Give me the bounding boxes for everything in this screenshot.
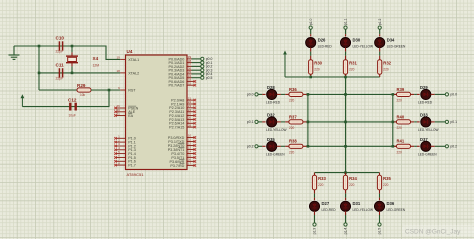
resistor R33 — [312, 175, 316, 190]
junction — [392, 121, 395, 124]
terminal p0.2 left — [255, 145, 258, 148]
pin R41 right — [410, 145, 414, 147]
wire XTAL1 net — [14, 46, 120, 59]
junction — [344, 121, 347, 124]
pin P3.1/TXD (pin 11) — [187, 141, 195, 143]
junction — [392, 145, 395, 148]
pin P1.2 (pin 3) — [116, 145, 126, 147]
pin P2.1/A9 (pin 22) — [187, 103, 195, 105]
junction rail R31 — [344, 76, 347, 79]
wire vertical A — [307, 94, 309, 146]
terminal p0.2 right — [445, 145, 448, 148]
pin P3.2/INT0 (pin 12) — [187, 145, 195, 147]
svg-text:R35: R35 — [383, 176, 391, 181]
ground — [9, 46, 20, 59]
pin R31 top — [345, 56, 347, 60]
svg-text:p0.2: p0.2 — [450, 145, 457, 149]
pin P3.4/T0 (pin 14) — [187, 153, 195, 155]
pin D32 cathode — [277, 121, 281, 123]
pin PSEN (pin 29) — [116, 107, 126, 109]
svg-text:LED-YELLOW: LED-YELLOW — [266, 128, 287, 132]
svg-text:R34: R34 — [349, 176, 357, 181]
power terminal VCC left — [21, 94, 25, 106]
svg-text:D37: D37 — [420, 137, 428, 142]
svg-text:p0.2: p0.2 — [247, 145, 254, 149]
svg-text:220: 220 — [349, 68, 355, 72]
svg-text:22pF: 22pF — [56, 50, 64, 54]
svg-text:LED-GREEN: LED-GREEN — [387, 208, 406, 212]
svg-text:D36: D36 — [387, 201, 395, 206]
wire XTAL2 net — [39, 72, 120, 74]
LED D35 — [266, 140, 278, 152]
pin X4 bottom — [71, 63, 73, 67]
wire P0.4 to terminal — [192, 73, 201, 75]
svg-text:D30: D30 — [353, 38, 361, 43]
pin P0.3/AD3 (pin 36) — [187, 69, 192, 71]
pin EA (pin 31) — [116, 115, 126, 117]
resistor R34 — [343, 175, 347, 190]
LED D33 — [420, 116, 432, 128]
svg-text:31: 31 — [116, 112, 120, 116]
pin D31 anode — [345, 198, 347, 202]
wire D31 to terminal — [345, 215, 347, 223]
svg-text:D28: D28 — [267, 85, 275, 90]
svg-text:R33: R33 — [318, 176, 326, 181]
pin XTAL1 (pin 19) — [120, 58, 125, 60]
MCU U4 AT89C51 body — [126, 55, 188, 170]
svg-text:D34: D34 — [387, 38, 395, 43]
junction RST node — [108, 89, 111, 92]
pin D26 cathode — [310, 47, 312, 51]
svg-text:p1.5: p1.5 — [378, 228, 382, 235]
junction — [392, 93, 395, 96]
terminal p0.0 — [201, 57, 204, 60]
wire row p0.1 — [307, 121, 397, 123]
svg-text:D32: D32 — [267, 112, 275, 117]
resistor R38 — [289, 144, 303, 148]
pin R39 left — [393, 93, 397, 95]
pin P1.4 (pin 5) — [116, 153, 126, 155]
junction — [344, 93, 347, 96]
svg-text:D26: D26 — [318, 38, 326, 43]
wire D32 to R37 — [281, 121, 285, 123]
terminal p0.0 right — [445, 93, 448, 96]
wire R41 to D37 — [414, 145, 417, 147]
pin D27 anode — [314, 198, 316, 202]
capacitor C11 — [59, 68, 62, 77]
wire terminal to D35 — [258, 145, 262, 147]
svg-text:19: 19 — [116, 56, 120, 60]
pin R35 top — [379, 173, 381, 176]
wire vertical gnd branch — [38, 46, 40, 90]
terminal p0.1 right — [445, 120, 448, 123]
resistor R37 — [289, 120, 303, 124]
wire C12 net — [22, 90, 109, 107]
wire R35 to D36 — [379, 194, 381, 198]
pin R34 top — [345, 173, 347, 176]
svg-text:EA: EA — [128, 114, 133, 118]
junction — [71, 72, 74, 75]
pin P1.7 (pin 8) — [116, 164, 126, 166]
svg-text:R37: R37 — [289, 114, 297, 119]
svg-text:p1.4: p1.4 — [344, 228, 348, 235]
pin D28 anode — [262, 93, 267, 95]
pin D26 anode — [310, 34, 312, 38]
pin R30 bottom — [310, 74, 312, 77]
power terminal VCC top — [283, 51, 287, 78]
wire D36 to terminal — [379, 215, 381, 223]
svg-text:R39: R39 — [397, 87, 405, 92]
wire D33 to terminal — [435, 121, 446, 123]
pin R31 bottom — [345, 74, 347, 77]
svg-text:220: 220 — [289, 151, 295, 155]
pin ALE (pin 30) — [116, 111, 126, 113]
terminal p0.1 — [201, 61, 204, 64]
wire D29 to terminal — [435, 93, 446, 95]
wire D35 to R38 — [281, 145, 285, 147]
resistor R35 — [377, 175, 381, 190]
pin R33 bottom — [314, 190, 316, 194]
pin P0.5/AD5 (pin 34) — [187, 77, 192, 79]
wire crystal branch bottom — [71, 66, 73, 73]
junction — [38, 45, 41, 48]
junction — [71, 45, 74, 48]
svg-text:P3.7/RD: P3.7/RD — [170, 164, 184, 168]
terminal p1.2 top — [378, 26, 381, 29]
wire P0.2 to terminal — [192, 65, 201, 67]
crystal X4 — [66, 56, 78, 63]
pin R34 bottom — [345, 190, 347, 194]
svg-text:220: 220 — [289, 99, 295, 103]
svg-text:R38: R38 — [289, 139, 297, 144]
resistor R29 — [77, 88, 91, 92]
svg-text:220: 220 — [397, 126, 403, 130]
pin P2.0/A8 (pin 21) — [187, 99, 195, 101]
svg-text:LED-YELLOW: LED-YELLOW — [353, 45, 374, 49]
pin R40 right — [410, 121, 414, 123]
wire R33 to D27 — [314, 194, 316, 198]
svg-text:LED-RED: LED-RED — [418, 100, 433, 104]
pin D27 cathode — [314, 211, 316, 215]
pin R37 right — [303, 121, 307, 123]
pin D34 anode — [379, 34, 381, 38]
svg-text:LED-RED: LED-RED — [266, 100, 281, 104]
junction — [344, 145, 347, 148]
pin P3.0/RXD (pin 10) — [187, 137, 195, 139]
wire RST left — [39, 89, 78, 91]
LED D36 — [373, 200, 385, 212]
svg-text:220: 220 — [289, 126, 295, 130]
capacitor C12 — [70, 103, 75, 111]
svg-text:32: 32 — [188, 81, 192, 85]
wire RST right — [91, 89, 120, 91]
junction — [307, 121, 310, 124]
pin P0.4/AD4 (pin 35) — [187, 73, 192, 75]
svg-text:LED-GREEN: LED-GREEN — [418, 152, 437, 156]
svg-text:p0.1: p0.1 — [247, 120, 254, 124]
pin R40 left — [393, 121, 397, 123]
pin P2.2/A10 (pin 23) — [187, 107, 195, 109]
pin P2.6/A14 (pin 27) — [187, 122, 195, 124]
wire terminal to D34 — [379, 29, 381, 34]
resistor R36 — [289, 92, 303, 96]
pin P1.0 (pin 1) — [116, 137, 126, 139]
LED D29 — [420, 88, 432, 100]
resistor R39 — [397, 92, 411, 96]
pin R36 left — [285, 93, 289, 95]
svg-text:R32: R32 — [383, 61, 391, 66]
resistor R31 — [343, 60, 347, 75]
pin P3.7/RD (pin 17) — [187, 164, 195, 166]
pin D37 cathode — [431, 145, 435, 147]
svg-text:220: 220 — [314, 68, 320, 72]
svg-text:U4: U4 — [127, 49, 133, 54]
svg-text:LED-YELLOW: LED-YELLOW — [353, 208, 374, 212]
junction — [307, 93, 310, 96]
terminal p0.1 left — [255, 120, 258, 123]
pin P1.6 (pin 7) — [116, 160, 126, 162]
pin P1.5 (pin 6) — [116, 157, 126, 159]
svg-text:p1.0: p1.0 — [309, 18, 313, 25]
svg-text:p1.2: p1.2 — [378, 18, 382, 25]
wire terminal to D30 — [345, 29, 347, 34]
wire D30 to R31 — [345, 52, 347, 56]
pin R32 bottom — [379, 74, 381, 77]
wire R39 to D29 — [414, 93, 417, 95]
svg-text:220: 220 — [383, 183, 389, 187]
svg-text:C11: C11 — [56, 63, 65, 68]
LED D32 — [266, 116, 278, 128]
LED D30 — [339, 37, 351, 49]
capacitor C10 — [59, 41, 62, 50]
svg-text:XTAL2: XTAL2 — [128, 71, 139, 75]
svg-text:10k: 10k — [80, 93, 86, 97]
pin R30 top — [310, 56, 312, 60]
pin P0.6/AD6 (pin 33) — [187, 80, 195, 82]
svg-text:10uF: 10uF — [69, 114, 76, 118]
svg-text:p0.0: p0.0 — [247, 93, 254, 97]
terminal p1.1 top — [344, 26, 347, 29]
pin P2.5/A13 (pin 26) — [187, 118, 195, 120]
terminal p1.0 top — [309, 26, 312, 29]
svg-text:22pF: 22pF — [56, 77, 64, 81]
terminal p1.3 bottom — [313, 223, 316, 226]
junction — [38, 72, 41, 75]
junction — [307, 145, 310, 148]
junction — [344, 171, 347, 174]
svg-text:RST: RST — [128, 88, 136, 92]
LED D31 — [339, 200, 351, 212]
wire D26 to R30 — [310, 52, 312, 56]
LED D28 — [266, 88, 278, 100]
terminal p0.4 — [201, 72, 204, 75]
wire P0.5 to terminal — [192, 77, 201, 79]
svg-text:P2.7/A15: P2.7/A15 — [169, 126, 184, 130]
pin D30 anode — [345, 34, 347, 38]
LED D26 — [305, 37, 317, 49]
pin R38 right — [303, 145, 307, 147]
pin P3.3/INT1 (pin 13) — [187, 149, 195, 151]
pin P0.0/AD0 (pin 39) — [187, 58, 192, 60]
svg-text:18: 18 — [116, 69, 120, 73]
svg-text:220: 220 — [397, 99, 403, 103]
svg-text:R41: R41 — [397, 139, 405, 144]
svg-text:X4: X4 — [93, 56, 99, 61]
wire terminal to D32 — [258, 121, 262, 123]
terminal p0.5 — [201, 76, 204, 79]
pin R32 top — [379, 56, 381, 60]
pin P3.6/WR (pin 16) — [187, 160, 195, 162]
svg-text:12M: 12M — [93, 64, 100, 68]
terminal p0.0 left — [255, 93, 258, 96]
LED D34 — [374, 37, 386, 49]
pin D30 cathode — [345, 47, 347, 51]
pin D36 cathode — [379, 211, 381, 215]
svg-text:LED-RED: LED-RED — [322, 208, 337, 212]
pin R33 top — [314, 173, 316, 176]
svg-text:R31: R31 — [349, 61, 357, 66]
pin D29 anode — [417, 93, 421, 95]
resistor R41 — [397, 144, 411, 148]
pin P0.7/AD7 (pin 32) — [187, 84, 195, 86]
svg-text:LED-YELLOW: LED-YELLOW — [418, 128, 439, 132]
resistor R30 — [309, 60, 313, 75]
pin D32 anode — [262, 121, 267, 123]
svg-text:CSDN @GnCi_Jay: CSDN @GnCi_Jay — [405, 229, 461, 236]
wire top rail — [285, 76, 380, 78]
wire P0.0 to terminal — [192, 58, 201, 60]
svg-text:D27: D27 — [322, 201, 330, 206]
wire R40 to D33 — [414, 121, 417, 123]
svg-text:28: 28 — [188, 123, 192, 127]
pin P1.1 (pin 2) — [116, 141, 126, 143]
wire vertical C — [392, 94, 394, 146]
svg-text:220: 220 — [397, 151, 403, 155]
wire row p0.0 — [307, 93, 397, 95]
pin D33 cathode — [431, 121, 435, 123]
pin D33 anode — [417, 121, 421, 123]
svg-text:220: 220 — [383, 68, 389, 72]
watermark CSDN — [402, 225, 474, 236]
wire P0.3 to terminal — [192, 69, 201, 71]
LED D37 — [420, 140, 432, 152]
svg-text:D35: D35 — [267, 137, 275, 142]
terminal p0.3 — [201, 69, 204, 72]
svg-text:p1.1: p1.1 — [344, 18, 348, 25]
svg-text:R30: R30 — [314, 61, 322, 66]
svg-text:XTAL1: XTAL1 — [128, 58, 139, 62]
svg-text:D29: D29 — [420, 85, 428, 90]
svg-text:p0.1: p0.1 — [450, 120, 457, 124]
terminal p0.2 — [201, 65, 204, 68]
svg-text:17: 17 — [188, 162, 192, 166]
LED D27 — [308, 200, 320, 212]
pin D28 cathode — [277, 93, 281, 95]
pin R37 left — [285, 121, 289, 123]
svg-text:AT89C51: AT89C51 — [127, 173, 144, 177]
pin R39 right — [410, 93, 414, 95]
terminal p1.5 bottom — [378, 223, 381, 226]
pin D35 cathode — [277, 145, 281, 147]
pin D29 cathode — [431, 93, 435, 95]
wire bottom rail — [315, 172, 380, 174]
pin P0.2/AD2 (pin 37) — [187, 65, 192, 67]
terminal p1.4 bottom — [344, 223, 347, 226]
wire terminal to D26 — [310, 29, 312, 34]
junction rail R30 — [309, 76, 312, 79]
pin D31 cathode — [345, 211, 347, 215]
pin P2.4/A12 (pin 25) — [187, 115, 195, 117]
pin R36 right — [303, 93, 307, 95]
wire vertical B — [345, 77, 347, 173]
pin R41 left — [393, 145, 397, 147]
svg-text:R36: R36 — [289, 87, 297, 92]
svg-text:R29: R29 — [77, 83, 86, 88]
wire D37 to terminal — [435, 145, 446, 147]
svg-text:D31: D31 — [353, 201, 361, 206]
wire terminal to D28 — [258, 93, 262, 95]
wire P0.1 to terminal — [192, 62, 201, 64]
svg-text:p0.5: p0.5 — [206, 76, 213, 80]
svg-text:p0.0: p0.0 — [450, 93, 457, 97]
wire D27 to terminal — [314, 215, 316, 223]
pin P3.5/T1 (pin 15) — [187, 156, 195, 158]
svg-text:P0.7/AD7: P0.7/AD7 — [169, 84, 185, 88]
pin XTAL2 (pin 18) — [120, 72, 125, 74]
wire R34 to D31 — [345, 194, 347, 198]
svg-text:C12: C12 — [68, 98, 77, 103]
svg-text:D33: D33 — [420, 112, 428, 117]
wire D34 to R32 — [379, 52, 381, 56]
pin P2.7/A15 (pin 28) — [187, 126, 195, 128]
resistor R40 — [397, 120, 411, 124]
pin P0.1/AD1 (pin 38) — [187, 62, 192, 64]
pin P1.3 (pin 4) — [116, 149, 126, 151]
svg-text:C10: C10 — [56, 36, 65, 41]
pin D34 cathode — [379, 47, 381, 51]
wire D28 to R36 — [281, 93, 285, 95]
svg-text:220: 220 — [349, 183, 355, 187]
svg-text:p1.3: p1.3 — [313, 228, 317, 235]
resistor R32 — [378, 60, 382, 75]
pin RST (pin 9) — [120, 89, 125, 91]
pin D36 anode — [379, 198, 381, 202]
pin R35 bottom — [379, 190, 381, 194]
wire crystal branch top — [71, 46, 73, 52]
svg-text:220: 220 — [318, 183, 324, 187]
pin D35 anode — [262, 145, 267, 147]
pin P2.3/A11 (pin 24) — [187, 111, 195, 113]
svg-text:P1.7: P1.7 — [128, 164, 136, 168]
svg-text:LED-RED: LED-RED — [318, 45, 333, 49]
pin X4 top — [71, 52, 73, 56]
svg-text:LED-GREEN: LED-GREEN — [266, 152, 285, 156]
svg-text:LED-GREEN: LED-GREEN — [387, 45, 406, 49]
wire row p0.2 — [307, 145, 397, 147]
pin D37 anode — [417, 145, 421, 147]
svg-text:R40: R40 — [397, 114, 405, 119]
pin R38 left — [285, 145, 289, 147]
